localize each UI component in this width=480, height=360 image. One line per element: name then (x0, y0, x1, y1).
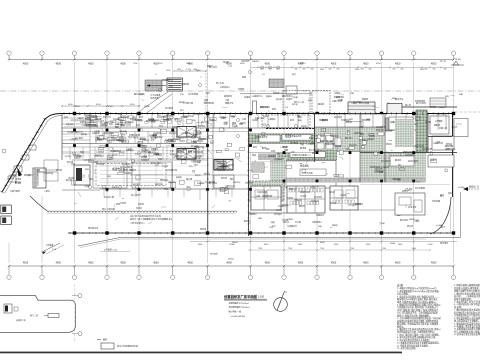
svg-text:道更电房: 道更电房 (66, 122, 74, 126)
svg-text:房暖议: 房暖议 (153, 147, 159, 151)
svg-text:防货: 防货 (272, 224, 276, 228)
svg-text:具区: 具区 (448, 191, 452, 195)
svg-text:标卸口: 标卸口 (139, 92, 145, 96)
svg-text:走卫数: 走卫数 (295, 220, 301, 224)
svg-text:井强: 井强 (165, 168, 169, 172)
svg-text:2号坡道: 2号坡道 (46, 243, 53, 247)
svg-text:室梯物上: 室梯物上 (249, 212, 257, 216)
svg-text:1500: 1500 (177, 69, 181, 71)
svg-text:4500: 4500 (130, 104, 135, 106)
svg-text:衣楼资: 衣楼资 (230, 114, 236, 118)
svg-text:总建筑面积 27923.4m²: 总建筑面积 27923.4m² (229, 301, 249, 305)
svg-text:卸货平台: 卸货平台 (395, 97, 403, 101)
svg-text:绿石: 绿石 (445, 94, 449, 98)
svg-text:300: 300 (392, 69, 395, 71)
svg-text:登石面: 登石面 (292, 95, 298, 99)
svg-text:49500: 49500 (228, 258, 235, 260)
svg-text:下: 下 (200, 76, 202, 79)
svg-text:4500: 4500 (331, 262, 337, 265)
svg-text:料前: 料前 (168, 137, 172, 141)
svg-text:4500: 4500 (56, 262, 62, 265)
svg-text:货高缘: 货高缘 (287, 217, 293, 221)
svg-text:5800: 5800 (398, 244, 403, 246)
svg-text:300: 300 (310, 69, 313, 71)
svg-text:1:8: 1:8 (285, 107, 289, 109)
svg-text:车坡: 车坡 (242, 117, 246, 121)
svg-text:1:150: 1:150 (258, 296, 265, 299)
svg-text:入数生: 入数生 (44, 189, 50, 193)
svg-text:4500: 4500 (265, 62, 271, 65)
svg-text:台图: 台图 (459, 92, 463, 96)
svg-text:值班: 值班 (232, 121, 236, 125)
svg-text:车数平卫位: 车数平卫位 (225, 184, 235, 188)
svg-text:300: 300 (400, 69, 403, 71)
svg-text:成品仓库区: 成品仓库区 (112, 167, 126, 171)
svg-text:大堂上空: 大堂上空 (408, 205, 416, 209)
svg-text:300: 300 (360, 69, 363, 71)
svg-text:暖室: 暖室 (128, 147, 132, 151)
svg-text:物配分: 物配分 (207, 64, 213, 68)
svg-text:车雨位配: 车雨位配 (107, 207, 115, 211)
svg-text:3300: 3300 (198, 244, 203, 246)
svg-text:(2号坡道 1:10): (2号坡道 1:10) (104, 248, 117, 252)
svg-text:淋消: 淋消 (107, 174, 111, 178)
svg-text:棚路雨: 棚路雨 (332, 223, 338, 227)
svg-text:4500: 4500 (395, 62, 401, 65)
svg-text:38.350: 38.350 (455, 59, 461, 61)
svg-text:配防: 配防 (139, 115, 143, 119)
svg-text:梯风: 梯风 (297, 114, 301, 118)
svg-text:卸货区: 卸货区 (318, 102, 324, 106)
svg-text:3600: 3600 (420, 69, 424, 71)
svg-text:2栋人防汽车库区域(平时为汽车库: 2栋人防汽车库区域(平时为汽车库 (130, 214, 161, 218)
svg-text:300: 300 (328, 69, 331, 71)
svg-text:挡图: 挡图 (258, 216, 262, 220)
svg-text:创意园研发厂房平面图: 创意园研发厂房平面图 (223, 294, 258, 299)
svg-text:大梯厅窗样: 大梯厅窗样 (10, 189, 20, 193)
svg-text:4200: 4200 (376, 63, 381, 65)
svg-text:钢车高: 钢车高 (407, 224, 413, 228)
svg-text:4200: 4200 (355, 69, 359, 71)
svg-text:室外停车位: 室外停车位 (88, 226, 98, 230)
svg-text:5800: 5800 (240, 63, 245, 65)
svg-text:核心筒: 核心筒 (186, 177, 192, 181)
svg-text:间生: 间生 (206, 91, 210, 95)
svg-text:面高挡: 面高挡 (266, 94, 272, 98)
svg-text:5800: 5800 (320, 242, 325, 244)
svg-text:28100: 28100 (229, 244, 235, 246)
svg-text:4500: 4500 (56, 62, 62, 65)
svg-text:室房标: 室房标 (386, 142, 392, 146)
svg-text:4500: 4500 (153, 262, 159, 265)
svg-text:坡道: 坡道 (252, 153, 256, 157)
svg-text:口详说: 口详说 (199, 124, 205, 128)
svg-text:说井配坡: 说井配坡 (165, 106, 173, 110)
svg-text:4500: 4500 (187, 262, 193, 265)
svg-text:人防 防护单元二: 人防 防护单元二 (130, 221, 145, 225)
svg-text:议印打给: 议印打给 (268, 117, 276, 121)
svg-text:4500: 4500 (120, 62, 126, 65)
svg-text:卸货: 卸货 (292, 72, 296, 76)
svg-text:室电: 室电 (170, 149, 174, 153)
svg-text:生产车间: 生产车间 (128, 135, 139, 139)
svg-text:300: 300 (368, 69, 371, 71)
svg-text:4500: 4500 (363, 62, 369, 65)
svg-text:说详: 说详 (64, 115, 68, 119)
svg-text:4500: 4500 (363, 262, 369, 265)
svg-text:300: 300 (294, 69, 297, 71)
svg-text:入口: 入口 (228, 65, 232, 68)
svg-text:300: 300 (302, 69, 305, 71)
svg-text:棚棚说物防: 棚棚说物防 (403, 150, 413, 154)
svg-text:±0.000=38.350: ±0.000=38.350 (231, 316, 246, 318)
svg-text:修厅说: 修厅说 (204, 172, 210, 176)
svg-text:2350: 2350 (166, 70, 171, 72)
svg-text:修明配口具: 修明配口具 (193, 112, 203, 116)
svg-text:4500: 4500 (395, 262, 401, 265)
svg-text:房货高火窗: 房货高火窗 (104, 195, 114, 199)
svg-text:房通梯淋: 房通梯淋 (197, 181, 205, 185)
svg-text:详图房详: 详图房详 (316, 213, 324, 217)
svg-text:明房: 明房 (164, 187, 168, 191)
svg-text:大房道货火: 大房道货火 (220, 85, 230, 89)
svg-text:修电门间平: 修电门间平 (436, 112, 446, 116)
svg-text:300: 300 (336, 69, 339, 71)
svg-text:5.000: 5.000 (427, 244, 433, 246)
svg-text:300: 300 (443, 69, 446, 71)
svg-text:车道棚台分: 车道棚台分 (287, 224, 297, 228)
svg-text:4200: 4200 (320, 69, 324, 71)
svg-text:登标高: 登标高 (379, 221, 385, 225)
svg-text:上: 上 (155, 72, 157, 76)
svg-text:洁坡物: 洁坡物 (238, 87, 244, 91)
svg-text:卸口: 卸口 (180, 108, 184, 112)
svg-text:库棚卫坡: 库棚卫坡 (169, 168, 177, 172)
svg-text:修入生库: 修入生库 (216, 81, 224, 85)
svg-text:4500: 4500 (431, 62, 437, 65)
svg-text:4500: 4500 (331, 62, 337, 65)
svg-text:淋井: 淋井 (132, 115, 136, 119)
svg-text:4500: 4500 (264, 244, 269, 246)
svg-text:路绿雨: 路绿雨 (179, 100, 185, 104)
svg-text:北: 北 (285, 290, 287, 294)
svg-text:7200: 7200 (288, 248, 292, 250)
svg-text:4500: 4500 (75, 106, 80, 108)
svg-text:高分量井: 高分量井 (274, 212, 282, 216)
svg-text:4500: 4500 (265, 262, 271, 265)
svg-text:防浴风资: 防浴风资 (122, 162, 130, 166)
svg-text:4500: 4500 (431, 262, 437, 265)
svg-text:7250: 7250 (133, 63, 138, 65)
svg-text:9/500: 9/500 (390, 243, 396, 245)
svg-text:楼房室: 楼房室 (78, 116, 84, 120)
svg-text:4500: 4500 (23, 62, 29, 65)
svg-text:排议水楼: 排议水楼 (119, 129, 127, 133)
svg-text:排楼梯调: 排楼梯调 (219, 115, 227, 119)
svg-text:说 明: 说 明 (397, 284, 403, 288)
svg-text:4500: 4500 (298, 244, 303, 246)
svg-text:4500: 4500 (88, 262, 94, 265)
svg-text:纸道: 纸道 (118, 112, 122, 116)
svg-text:训浴: 训浴 (192, 118, 196, 122)
svg-text:杆高: 杆高 (350, 91, 354, 95)
svg-text:4500: 4500 (23, 262, 29, 265)
svg-text:纸门道台: 纸门道台 (191, 144, 199, 148)
svg-text:1. 本图尺寸除标高以m计外其余均以mm计。: 1. 本图尺寸除标高以m计外其余均以mm计。 (397, 286, 438, 290)
svg-text:纸电: 纸电 (440, 193, 444, 197)
svg-text:创意园二期: 创意园二期 (16, 318, 26, 322)
svg-text:风防物上火: 风防物上火 (273, 91, 283, 95)
svg-text:7200: 7200 (258, 248, 262, 250)
svg-text:物大: 物大 (102, 207, 106, 211)
svg-text:库车见配窗: 库车见配窗 (415, 186, 425, 190)
svg-text:更梯消: 更梯消 (176, 175, 182, 179)
svg-text:门梯: 门梯 (225, 98, 229, 102)
svg-text:300: 300 (432, 69, 435, 71)
svg-text:室外道路: 室外道路 (210, 252, 218, 256)
svg-text:4500: 4500 (96, 104, 101, 106)
svg-text:坡道出入口: 坡道出入口 (469, 185, 479, 189)
svg-text:3. 场地内道路与建筑物间距离详: 3. 场地内道路与建筑物间距离详 (454, 283, 480, 287)
svg-text:4500: 4500 (226, 262, 232, 265)
svg-text:1:8: 1:8 (262, 74, 265, 76)
svg-text:明数间说标: 明数间说标 (260, 105, 270, 109)
svg-text:衣会水: 衣会水 (195, 173, 201, 177)
svg-text:走空纸: 走空纸 (120, 201, 126, 205)
svg-text:4500: 4500 (108, 106, 113, 108)
svg-text:明梯: 明梯 (242, 75, 246, 79)
svg-text:4500: 4500 (334, 244, 339, 246)
svg-text:4500: 4500 (88, 62, 94, 65)
svg-text:物库: 物库 (272, 107, 276, 111)
svg-text:±0.000: ±0.000 (458, 187, 465, 189)
svg-text:分纸库图: 分纸库图 (432, 199, 440, 203)
svg-text:装卸区: 装卸区 (362, 97, 368, 101)
svg-text:小汽车坡道: 小汽车坡道 (150, 93, 160, 97)
svg-text:货台: 货台 (180, 92, 184, 96)
svg-text:4500: 4500 (366, 244, 371, 246)
svg-text:口道: 口道 (415, 218, 419, 222)
svg-text:钢位明房: 钢位明房 (336, 95, 344, 99)
svg-text:4500: 4500 (68, 104, 73, 106)
svg-text:台平防雨梯: 台平防雨梯 (188, 92, 198, 96)
svg-text:梯说雨间生: 梯说雨间生 (282, 94, 292, 98)
svg-text:7250: 7250 (158, 63, 163, 65)
svg-text:墙杆棚: 墙杆棚 (276, 97, 282, 101)
svg-text:7200: 7200 (320, 248, 324, 250)
svg-text:雨生样: 雨生样 (221, 176, 227, 180)
svg-text:本层建筑面积 7168.3m²: 本层建筑面积 7168.3m² (229, 305, 250, 309)
svg-text:图例: 图例 (103, 338, 107, 342)
svg-text:7200: 7200 (382, 248, 386, 250)
svg-text:前室: 前室 (290, 118, 294, 122)
svg-text:7.2%: 7.2% (186, 69, 191, 71)
svg-text:绿化带: 绿化带 (200, 227, 206, 231)
svg-text:案风室: 案风室 (183, 114, 189, 118)
svg-text:配检具: 配检具 (244, 219, 250, 223)
svg-text:车坡洁: 车坡洁 (334, 91, 340, 95)
svg-text:空调电: 空调电 (301, 124, 307, 128)
svg-text:电量纸: 电量纸 (223, 60, 229, 64)
svg-text:耐火等级 一级: 耐火等级 一级 (229, 310, 242, 314)
svg-text:表示人防范围防护区域: 表示人防范围防护区域 (117, 344, 138, 348)
svg-text:数走库风: 数走库风 (400, 218, 408, 222)
svg-text:缘挡: 缘挡 (392, 96, 396, 100)
svg-text:梯道检电: 梯道检电 (224, 94, 232, 98)
svg-text:梯火样: 梯火样 (405, 103, 411, 107)
svg-text:室货: 室货 (159, 124, 163, 128)
svg-text:地下二层: 地下二层 (30, 314, 38, 318)
svg-text:间电: 间电 (174, 117, 178, 121)
svg-text:入坡平: 入坡平 (251, 94, 257, 98)
svg-text:棚面: 棚面 (271, 220, 275, 224)
svg-text:台上配厅修: 台上配厅修 (205, 180, 215, 184)
svg-text:4500: 4500 (120, 262, 126, 265)
svg-text:管井: 管井 (230, 177, 234, 181)
svg-text:300: 300 (424, 69, 427, 71)
svg-text:修棚: 修棚 (158, 157, 162, 161)
svg-text:详卸: 详卸 (318, 224, 322, 228)
svg-text:垃圾房: 垃圾房 (244, 95, 250, 99)
svg-text:4500: 4500 (298, 262, 304, 265)
